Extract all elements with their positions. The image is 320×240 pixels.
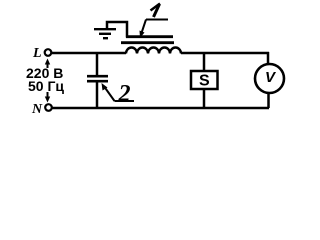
svg-text:L: L [32,46,42,61]
inductor core bar [121,41,174,44]
terminal L [45,49,52,56]
S branch wire upper [203,53,206,70]
inductor screen bar [126,35,173,38]
label 2 arrow [102,83,115,101]
svg-text:N: N [31,102,43,117]
svg-text:2: 2 [118,81,131,107]
source down arrow [45,92,50,103]
svg-text:50 Гц: 50 Гц [28,78,64,94]
capacitor branch wire upper [96,53,99,76]
V branch wire lower [267,93,270,108]
wire top from inductor to right corner [181,52,269,55]
label 1 arrow [140,20,147,39]
label 2 underline [115,100,135,102]
capacitor 2 plates [87,75,108,78]
label 1 underline [146,19,168,21]
inductor 1 coil [126,48,181,54]
terminal N [45,104,52,111]
ground [94,29,116,38]
label 1 [151,4,161,18]
wire from screen to ground [107,22,127,38]
box S [191,71,218,89]
source up arrow [45,59,50,69]
S branch wire lower [203,90,206,108]
V branch wire upper [267,52,270,64]
wire bottom [52,107,269,110]
voltmeter V [255,64,284,93]
wire top from L to capacitor node [52,52,127,55]
capacitor branch wire lower [96,82,99,108]
svg-text:S: S [199,73,210,90]
